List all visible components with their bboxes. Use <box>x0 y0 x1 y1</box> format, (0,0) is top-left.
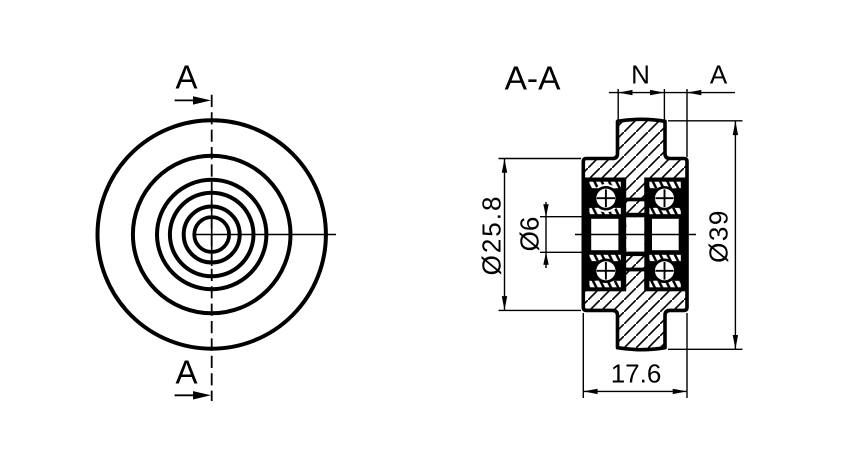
ext line rim bottom right <box>668 348 743 350</box>
wheel body outline hatched <box>583 119 687 349</box>
ext line bore top <box>540 216 584 218</box>
ext line flange bottom left <box>499 309 582 311</box>
section arrow bottom <box>175 394 194 396</box>
spacer hatch cell top <box>626 201 644 212</box>
bearing inner-ring hatch left-bottom <box>589 255 620 261</box>
bearing pocket left <box>584 178 626 292</box>
bore window right <box>652 219 679 250</box>
ext line rim top right <box>668 120 743 122</box>
arrow N right / A left shared <box>650 90 664 95</box>
left dim Ø25.8 <box>504 159 506 311</box>
arrow N left <box>618 90 632 95</box>
inner dim Ø6 <box>545 202 547 268</box>
vertical center crosshair <box>211 192 213 266</box>
spacer black bar bottom <box>625 268 646 272</box>
ext line rim right <box>663 89 665 120</box>
section axis centerline <box>575 234 696 236</box>
svg-text:Ø6: Ø6 <box>515 217 545 252</box>
top dim line N / A <box>609 92 735 94</box>
inner ring bar top <box>625 213 646 218</box>
horizontal centerline <box>193 234 336 236</box>
svg-text:17.6: 17.6 <box>611 359 662 389</box>
ext line body right bottom <box>686 313 688 398</box>
ext line body left bottom <box>582 313 584 398</box>
inner ring bar bottom <box>625 252 646 257</box>
ball halos <box>592 184 679 285</box>
ball left-top <box>595 187 617 209</box>
circle bore <box>194 217 229 252</box>
arrow Ø25.8 top <box>502 159 507 173</box>
bearing outer-ring hatch right-bottom <box>649 281 680 288</box>
spacer hatch cell bottom <box>626 256 644 267</box>
arrow 17.6 right <box>673 389 687 394</box>
arrow Ø25.8 bottom <box>502 296 507 310</box>
bearing inner-ring hatch left-top <box>589 208 620 214</box>
vertical section line A-A dashed <box>211 95 213 401</box>
ball right-bottom <box>654 260 676 282</box>
ext line rim left <box>617 89 619 120</box>
arrow Ø6 top outside <box>543 204 548 217</box>
spacer black bar top <box>625 198 646 202</box>
ball right-top <box>654 187 676 209</box>
bore window left <box>591 219 618 250</box>
svg-text:Ø25.8: Ø25.8 <box>477 195 507 276</box>
ball left-bottom <box>595 260 617 282</box>
bearing outer-ring hatch left-top <box>589 182 620 189</box>
arrow 17.6 left <box>583 389 597 394</box>
svg-text:A: A <box>175 59 197 96</box>
svg-text:Ø39: Ø39 <box>704 209 734 263</box>
svg-text:A: A <box>710 60 728 90</box>
svg-text:N: N <box>631 60 650 90</box>
arrow Ø39 bottom <box>733 335 738 349</box>
bearing inner-ring hatch right-top <box>649 208 680 214</box>
circle bearing OD <box>157 180 266 289</box>
bottom dim 17.6 <box>583 390 687 392</box>
bearing outer-ring hatch left-bottom <box>589 281 620 288</box>
ext line flange top left <box>499 158 582 160</box>
circle flange OD <box>133 156 291 314</box>
circle inner ring <box>184 207 240 263</box>
outer circle rim OD <box>98 120 326 348</box>
ext line bore bottom <box>540 251 584 253</box>
bearing pocket right <box>644 178 686 292</box>
right dim Ø39 <box>734 121 736 349</box>
section arrow top <box>175 99 194 101</box>
arrow A at body edge <box>687 90 701 95</box>
svg-text:A-A: A-A <box>505 61 562 98</box>
bearing outer-ring hatch right-top <box>649 182 680 189</box>
arrow Ø6 bottom outside <box>543 252 548 264</box>
bearing inner-ring hatch right-bottom <box>649 255 680 261</box>
circle bearing shield <box>170 193 254 277</box>
arrow Ø39 top <box>733 121 738 135</box>
svg-text:A: A <box>175 354 197 391</box>
ext line body right top <box>686 89 688 157</box>
bore window middle <box>626 217 644 251</box>
